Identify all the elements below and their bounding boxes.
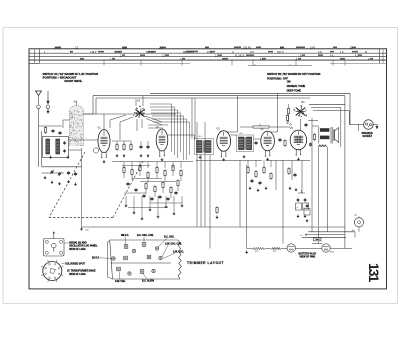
resistor R17 bbox=[318, 145, 327, 147]
svg-text:B.C. OSC.: B.C. OSC. bbox=[164, 237, 175, 239]
wire bbox=[311, 118, 313, 232]
svg-text:SWITCH ‘B1’,‘B2’ SHOWN IN ‘OFF: SWITCH ‘B1’,‘B2’ SHOWN IN ‘OFF’ POSITION bbox=[267, 73, 321, 76]
valve V5 bbox=[290, 126, 307, 155]
svg-text:B1: B1 bbox=[302, 100, 306, 104]
wire bbox=[313, 111, 349, 125]
valve V3 bbox=[216, 127, 230, 157]
wire bbox=[344, 96, 346, 105]
ground bbox=[66, 156, 69, 159]
svg-text:V3: V3 bbox=[216, 127, 220, 131]
ground bbox=[67, 180, 70, 183]
aerial coil box L1 L2 bbox=[43, 137, 69, 158]
wire bbox=[196, 160, 262, 162]
wire bbox=[349, 124, 363, 126]
trimmer panel divider bbox=[111, 262, 172, 264]
capacitor C15 bbox=[303, 198, 309, 210]
ground bbox=[303, 215, 306, 218]
svg-text:LF: LF bbox=[296, 208, 299, 210]
page number 131 bbox=[366, 263, 381, 283]
wire bbox=[148, 125, 168, 128]
wire bbox=[308, 120, 318, 122]
svg-text:V5: V5 bbox=[290, 126, 294, 130]
svg-text:TRIMMER LAYOUT: TRIMMER LAYOUT bbox=[187, 261, 224, 265]
label SW VER bbox=[115, 271, 126, 283]
wire bbox=[373, 124, 377, 126]
wire bbox=[120, 116, 162, 125]
ground bbox=[198, 156, 201, 159]
ground bbox=[256, 189, 259, 192]
resistor R16 bbox=[252, 247, 265, 253]
wire bbox=[84, 113, 177, 115]
capacitor C13 bbox=[293, 173, 296, 177]
wire bbox=[246, 227, 248, 249]
wire bbox=[110, 115, 126, 128]
wire bbox=[308, 231, 355, 233]
wire bbox=[81, 148, 83, 227]
wire bbox=[240, 161, 247, 228]
trimmer screws bbox=[112, 247, 162, 275]
lug panel bbox=[44, 239, 65, 257]
ground bbox=[297, 158, 300, 161]
ground bbox=[80, 227, 83, 230]
wire bbox=[29, 52, 387, 54]
ground bbox=[294, 188, 297, 191]
svg-text:R16: R16 bbox=[255, 251, 258, 253]
svg-text:R O: R O bbox=[250, 52, 254, 54]
wire bbox=[192, 98, 195, 139]
svg-text:C20: C20 bbox=[85, 230, 90, 232]
ground bbox=[49, 156, 52, 159]
ground bbox=[305, 219, 308, 222]
ground bbox=[288, 187, 291, 190]
resistor R4 bbox=[130, 141, 132, 151]
valve V4 bbox=[260, 127, 274, 156]
wire bbox=[248, 64, 312, 65]
ground bbox=[43, 176, 46, 179]
capacitor C4 bbox=[67, 171, 70, 175]
wire bbox=[354, 232, 356, 238]
svg-text:NORMAL TONE: NORMAL TONE bbox=[287, 85, 306, 88]
IF transformer IF2 bbox=[237, 133, 254, 152]
wire bbox=[84, 96, 97, 114]
wire bbox=[82, 226, 345, 228]
earth arrow bbox=[47, 109, 50, 114]
coil L1 bbox=[46, 139, 50, 154]
wire bbox=[311, 108, 341, 148]
capacitor C18 bbox=[304, 123, 307, 127]
ground bbox=[115, 154, 118, 157]
resistor R13 bbox=[288, 167, 290, 175]
IF transformer base diagram bbox=[41, 260, 63, 282]
wire bbox=[119, 122, 121, 140]
ground bbox=[245, 251, 248, 254]
resistor R12 bbox=[284, 139, 286, 147]
svg-text:BATTERY PLUG: BATTERY PLUG bbox=[299, 252, 317, 255]
valve V1 bbox=[98, 126, 111, 159]
svg-text:C38 R: C38 R bbox=[90, 52, 97, 54]
label bbox=[330, 251, 334, 253]
svg-text:V2: V2 bbox=[156, 125, 160, 129]
wire bbox=[69, 140, 99, 150]
svg-text:SPEAKER: SPEAKER bbox=[362, 132, 373, 135]
svg-text:DEEP TONE: DEEP TONE bbox=[287, 89, 302, 92]
wire bbox=[266, 160, 310, 162]
svg-text:A R: A R bbox=[318, 51, 322, 54]
capacitor C10 bbox=[254, 141, 257, 145]
ground bbox=[376, 125, 379, 130]
wire bbox=[29, 56, 387, 58]
resistor R20 bbox=[313, 133, 315, 141]
wire bbox=[300, 119, 302, 130]
svg-text:V1: V1 bbox=[98, 126, 102, 130]
wire bbox=[112, 140, 131, 142]
svg-text:4 O: 4 O bbox=[340, 52, 344, 54]
ground bbox=[50, 181, 53, 184]
fuse F1 bbox=[287, 244, 295, 252]
wire bbox=[124, 162, 181, 168]
wire bbox=[312, 125, 319, 127]
svg-text:C42 R9: C42 R9 bbox=[243, 47, 251, 49]
wire bbox=[29, 59, 387, 61]
ground bbox=[122, 154, 125, 157]
wire bbox=[282, 160, 284, 244]
capacitor C1 bbox=[51, 129, 54, 133]
trimmer panel outline bbox=[108, 240, 182, 279]
meter A+ B+ bbox=[352, 214, 364, 233]
variable capacitor VC2 bbox=[58, 172, 62, 176]
wire bbox=[209, 155, 211, 249]
wire bbox=[204, 122, 206, 227]
svg-text:B2 R.F.: B2 R.F. bbox=[92, 258, 100, 260]
capacitor C12 bbox=[278, 138, 281, 142]
label 6M OSC COIL bbox=[162, 243, 183, 257]
wire bbox=[38, 109, 40, 167]
svg-text:A A: A A bbox=[330, 54, 334, 57]
bus value labels bbox=[44, 46, 373, 60]
terminal A bbox=[37, 105, 41, 109]
svg-text:POSITIONS:- OFF: POSITIONS:- OFF bbox=[267, 77, 288, 80]
wire bbox=[227, 96, 238, 132]
wire bbox=[344, 104, 346, 248]
wire bbox=[231, 135, 261, 139]
capacitor C3 bbox=[63, 149, 65, 153]
wire bbox=[53, 231, 55, 238]
wire bbox=[103, 114, 105, 130]
svg-text:C4 R: C4 R bbox=[310, 47, 316, 49]
resistor R15 bbox=[271, 247, 281, 253]
ground bbox=[296, 215, 299, 218]
wire bbox=[168, 135, 195, 140]
svg-text:POSITIONS :- BROADCAST: POSITIONS :- BROADCAST bbox=[43, 76, 77, 80]
ground bbox=[222, 158, 225, 161]
fuse F2 bbox=[322, 244, 330, 252]
svg-text:VIEW OF PINS: VIEW OF PINS bbox=[300, 257, 316, 259]
svg-text:COLOURED SPOT: COLOURED SPOT bbox=[65, 263, 86, 265]
resistor R14 bbox=[287, 107, 289, 115]
wire bbox=[63, 120, 70, 128]
wire bbox=[330, 62, 387, 64]
coil L2 bbox=[56, 139, 60, 154]
svg-text:AERIAL B2 AND: AERIAL B2 AND bbox=[69, 241, 87, 244]
label AC OSC bbox=[158, 237, 175, 247]
svg-text:41 14O A: 41 14O A bbox=[235, 54, 245, 57]
wire bbox=[200, 155, 202, 228]
wire bbox=[39, 125, 63, 127]
capacitor C7 bbox=[146, 141, 149, 149]
svg-text:VIEW OF LUGS: VIEW OF LUGS bbox=[69, 274, 86, 276]
wire bbox=[357, 125, 359, 132]
tone switch B1 B2 bbox=[293, 100, 307, 117]
svg-text:S.W. OSC. COIL: S.W. OSC. COIL bbox=[165, 243, 183, 245]
wavechange switch A2 bbox=[133, 99, 145, 118]
resistor R8 bbox=[216, 206, 218, 214]
wire bbox=[298, 190, 305, 193]
wire bbox=[248, 160, 271, 167]
schematic border frame bbox=[29, 49, 387, 289]
coil can A1 bbox=[70, 100, 84, 147]
wire bbox=[41, 131, 43, 167]
lug panel note bbox=[65, 241, 99, 251]
resistor R1 bbox=[44, 126, 46, 134]
wire bbox=[196, 122, 198, 227]
valve V2 bbox=[156, 125, 168, 157]
ground bbox=[74, 183, 77, 186]
node terminal column left bbox=[29, 49, 39, 64]
IF transformer IF1 bbox=[195, 136, 214, 154]
svg-text:A2: A2 bbox=[137, 99, 141, 103]
resistor R2 bbox=[116, 141, 118, 151]
wire bbox=[271, 93, 278, 132]
capacitor C6 bbox=[139, 141, 142, 149]
ground bbox=[266, 158, 269, 161]
svg-text:B.C. OSC. COIL: B.C. OSC. COIL bbox=[137, 235, 154, 237]
wire bbox=[42, 166, 82, 168]
resistor R19 bbox=[286, 114, 291, 125]
capacitor C2 bbox=[58, 131, 61, 135]
label BC ALIGN bbox=[142, 274, 154, 283]
wire bbox=[29, 62, 190, 64]
svg-text:F+: F+ bbox=[301, 235, 304, 237]
ground bbox=[146, 154, 149, 157]
oscillator section resistors capacitors bbox=[122, 164, 182, 207]
svg-text:ON: ON bbox=[287, 81, 291, 84]
battery plug note bbox=[299, 252, 317, 258]
volume control R18 bbox=[240, 124, 290, 129]
wire bbox=[327, 147, 329, 232]
AVC resistors R9 R10 R11 bbox=[247, 166, 272, 185]
wire bbox=[112, 161, 193, 163]
wire bbox=[150, 92, 350, 94]
gang coupling dashed link bbox=[49, 152, 143, 218]
capacitor C5 bbox=[74, 172, 77, 176]
oscillator coupling wires bbox=[150, 104, 190, 160]
capacitor C14 bbox=[296, 198, 302, 210]
trimmer capacitors bbox=[117, 243, 151, 274]
label B2 RF bbox=[92, 258, 112, 260]
ground bbox=[160, 158, 163, 161]
label 6M RF bbox=[121, 235, 129, 245]
ground bbox=[242, 155, 245, 158]
wire bbox=[318, 147, 320, 226]
variable capacitor VC1 bbox=[50, 170, 54, 174]
svg-text:I.F.2: I.F.2 bbox=[239, 133, 244, 135]
output transformer T1 bbox=[319, 127, 332, 144]
ground bbox=[264, 187, 267, 190]
wire bbox=[42, 172, 64, 174]
speaker socket bbox=[362, 120, 374, 138]
svg-text:V4: V4 bbox=[260, 127, 264, 131]
ground bbox=[139, 154, 142, 157]
wire bbox=[104, 60, 345, 65]
fuse holder bbox=[301, 227, 345, 244]
resistor R3 bbox=[123, 141, 125, 151]
wire bbox=[302, 236, 346, 238]
svg-text:W15: W15 bbox=[330, 251, 334, 253]
wire bbox=[93, 95, 345, 97]
wire bbox=[96, 97, 310, 99]
svg-text:O: O bbox=[232, 52, 234, 54]
trimmer layout title bbox=[187, 261, 224, 265]
wire bbox=[309, 103, 345, 105]
label C20 bbox=[85, 230, 90, 232]
node terminal column right bbox=[380, 49, 384, 64]
note switch A1 A2 bbox=[43, 72, 99, 83]
svg-text:S.W. VER.: S.W. VER. bbox=[115, 281, 126, 283]
wire bbox=[349, 93, 351, 124]
label 1st OSC COIL bbox=[137, 235, 154, 243]
svg-text:I.F. TRANSFORMER BASE: I.F. TRANSFORMER BASE bbox=[67, 270, 96, 273]
ground bbox=[124, 196, 183, 220]
aerial antenna bbox=[36, 91, 42, 105]
note switch B1 B2 bbox=[267, 73, 321, 92]
wire bbox=[247, 248, 352, 250]
node bbox=[93, 148, 98, 153]
IF base note bbox=[67, 270, 96, 276]
svg-text:131: 131 bbox=[366, 263, 381, 283]
svg-text:A+: A+ bbox=[355, 214, 358, 217]
svg-text:SHORT WAVE.: SHORT WAVE. bbox=[64, 79, 82, 83]
ground bbox=[58, 182, 61, 185]
capacitor C16 bbox=[304, 204, 310, 215]
ground bbox=[102, 160, 105, 163]
svg-text:B.C. ALIGN: B.C. ALIGN bbox=[142, 280, 154, 283]
wire bbox=[276, 161, 302, 194]
trimmer capacitor bbox=[63, 141, 65, 145]
earth arrow bbox=[46, 91, 49, 105]
wire bbox=[312, 243, 322, 245]
label 6M OSC bbox=[163, 252, 184, 259]
svg-text:SWITCH ‘A1’,‘A2’ SHOWN IN ‘L.W: SWITCH ‘A1’,‘A2’ SHOWN IN ‘L.W.’ POSITIO… bbox=[43, 72, 99, 76]
loudspeaker LS bbox=[334, 128, 339, 143]
coloured spot note bbox=[62, 263, 86, 265]
wire bbox=[288, 104, 290, 122]
svg-text:SOCKET: SOCKET bbox=[363, 136, 373, 138]
ground bbox=[248, 187, 251, 190]
ground bbox=[215, 216, 218, 219]
svg-text:VIEW OF LUGS: VIEW OF LUGS bbox=[69, 249, 86, 251]
svg-text:R15: R15 bbox=[273, 251, 276, 253]
svg-text:I.F.1: I.F.1 bbox=[198, 136, 203, 138]
capacitor C17 bbox=[309, 142, 312, 146]
terminal E bbox=[46, 105, 50, 109]
svg-text:OSCILLATOR LUG PANEL: OSCILLATOR LUG PANEL bbox=[69, 245, 98, 248]
wire bbox=[136, 96, 143, 131]
svg-text:39O O: 39O O bbox=[277, 52, 284, 54]
